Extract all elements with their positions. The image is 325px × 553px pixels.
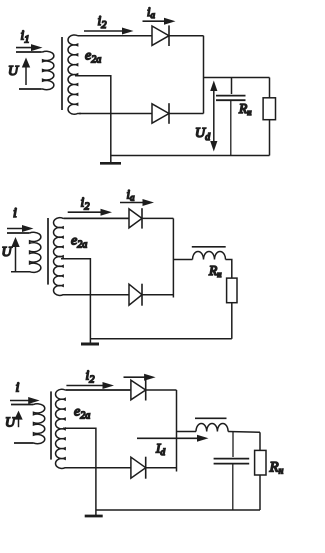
wire secondary top to VD3 xyxy=(64,217,129,219)
capacitor C2 plates xyxy=(214,458,250,460)
diode VD5 xyxy=(131,380,146,400)
wire primary top c1 xyxy=(16,51,41,53)
current arrow ia xyxy=(143,20,166,22)
wire primary bottom c1 xyxy=(19,88,41,90)
svg-text:i2: i2 xyxy=(98,13,108,31)
wire primary top c2 xyxy=(7,232,29,234)
wire secondary bottom to diode VD2 xyxy=(79,113,152,115)
wire center tap c1 xyxy=(75,76,111,163)
wire primary top c3 xyxy=(11,404,33,406)
ground c2 xyxy=(81,343,99,346)
choke L1 winding xyxy=(193,252,226,260)
svg-text:ia: ia xyxy=(127,188,135,203)
wire VD5 cathode to node c3 xyxy=(146,389,177,391)
transformer T2 core xyxy=(47,218,49,285)
diode VD4 xyxy=(129,284,142,305)
svg-text:i1: i1 xyxy=(21,28,30,46)
transformer T2 primary winding xyxy=(7,232,41,272)
current arrow ia c2 xyxy=(120,202,144,204)
wire bottom rail c1 xyxy=(111,155,270,157)
svg-text:Id: Id xyxy=(155,441,165,459)
capacitor C1 plates xyxy=(216,95,246,97)
wire bottom rail c3 xyxy=(96,509,260,511)
wire center tap c3 xyxy=(63,428,96,515)
current arrow i2 c2 xyxy=(68,211,102,213)
wire VD1 cathode to node xyxy=(169,35,204,37)
wire secondary bottom to VD4 xyxy=(64,294,129,296)
svg-text:Rн: Rн xyxy=(269,460,284,477)
wire secondary bottom to VD6 xyxy=(66,467,131,469)
current arrow i c2 xyxy=(7,228,24,230)
diode VD1 xyxy=(152,26,169,45)
wire secondary top to diode VD1 xyxy=(79,35,152,37)
diode VD3 xyxy=(129,209,142,228)
transformer T2 secondary winding e2a xyxy=(54,218,129,296)
svg-text:Ud: Ud xyxy=(195,126,211,143)
capacitor C2 bottom lead xyxy=(232,464,234,510)
wire secondary top to VD5 xyxy=(66,389,131,391)
resistor Rn c2 xyxy=(227,278,237,303)
transformer T3 core xyxy=(50,391,52,459)
wire load bottom c3 xyxy=(259,475,261,510)
current arrow Id xyxy=(137,437,199,439)
wire to load c1 xyxy=(269,78,271,98)
wire node to choke c2 xyxy=(173,259,192,261)
current arrow i2 xyxy=(84,30,124,32)
wire VD2 cathode to node xyxy=(169,113,204,115)
wire output top c1 xyxy=(204,77,270,79)
wire bottom rail c2 xyxy=(90,338,231,340)
wire choke to load c3 xyxy=(228,431,260,434)
choke L2 winding xyxy=(196,424,228,432)
svg-text:i: i xyxy=(13,206,17,221)
voltage arrow U c3 xyxy=(18,418,20,427)
svg-text:ia: ia xyxy=(147,5,155,20)
transformer T1 secondary winding e2a xyxy=(68,35,152,114)
transformer T3 secondary winding e2a xyxy=(56,389,130,468)
choke L2 core bar xyxy=(195,417,227,419)
wire cathode junction vertical c1 xyxy=(203,36,205,114)
current arrow i1 xyxy=(16,47,33,49)
wire choke to load c2 xyxy=(226,260,232,279)
svg-text:U: U xyxy=(8,64,19,79)
voltage arrow U c2 xyxy=(15,246,17,273)
wire cathode junction vertical c3 xyxy=(176,390,178,472)
wire VD4 cathode to node c2 xyxy=(142,294,173,296)
svg-text:U: U xyxy=(5,416,16,431)
wire to load c3 xyxy=(259,432,261,450)
diode VD6 xyxy=(131,457,146,478)
capacitor C1 top lead xyxy=(231,78,233,95)
current arrow i c3 xyxy=(10,400,30,402)
wire cathode junction vertical c2 xyxy=(172,218,174,297)
svg-text:e2a: e2a xyxy=(71,234,87,251)
wire center tap c2 xyxy=(61,259,90,343)
svg-text:e2a: e2a xyxy=(74,405,90,422)
voltage arrow U circuit 1 xyxy=(25,66,27,85)
wire node to choke c3 xyxy=(177,431,197,433)
svg-text:Rн: Rн xyxy=(238,101,251,117)
svg-text:Rн: Rн xyxy=(208,263,221,279)
choke L1 core bar xyxy=(192,246,226,248)
ground c3 xyxy=(85,515,103,518)
wire load bottom c1 xyxy=(269,120,271,156)
capacitor C1 bottom lead xyxy=(230,101,232,156)
wire VD3 cathode to node c2 xyxy=(142,217,173,219)
svg-text:U: U xyxy=(2,245,13,260)
wire primary bottom c3 xyxy=(14,442,33,444)
svg-text:i2: i2 xyxy=(86,368,96,386)
svg-text:i: i xyxy=(16,381,20,396)
transformer T1 core xyxy=(61,37,63,110)
wire VD6 cathode to node c3 xyxy=(146,467,177,469)
resistor Rn c1 xyxy=(263,98,275,120)
current arrow i2 c3 xyxy=(66,385,104,387)
capacitor C2 top lead xyxy=(232,432,234,457)
current arrow above VD5 xyxy=(124,376,146,378)
resistor Rn c3 xyxy=(255,450,266,475)
transformer T1 primary winding xyxy=(16,51,54,89)
wire load bottom c2 xyxy=(231,303,233,339)
svg-text:e2a: e2a xyxy=(85,49,101,66)
ground c1 xyxy=(100,162,121,165)
svg-text:i2: i2 xyxy=(81,195,91,213)
wire primary bottom c2 xyxy=(11,271,29,273)
voltage arrow Ud (double headed) xyxy=(213,88,215,144)
diode VD2 xyxy=(152,104,169,123)
transformer T3 primary winding xyxy=(11,404,45,444)
